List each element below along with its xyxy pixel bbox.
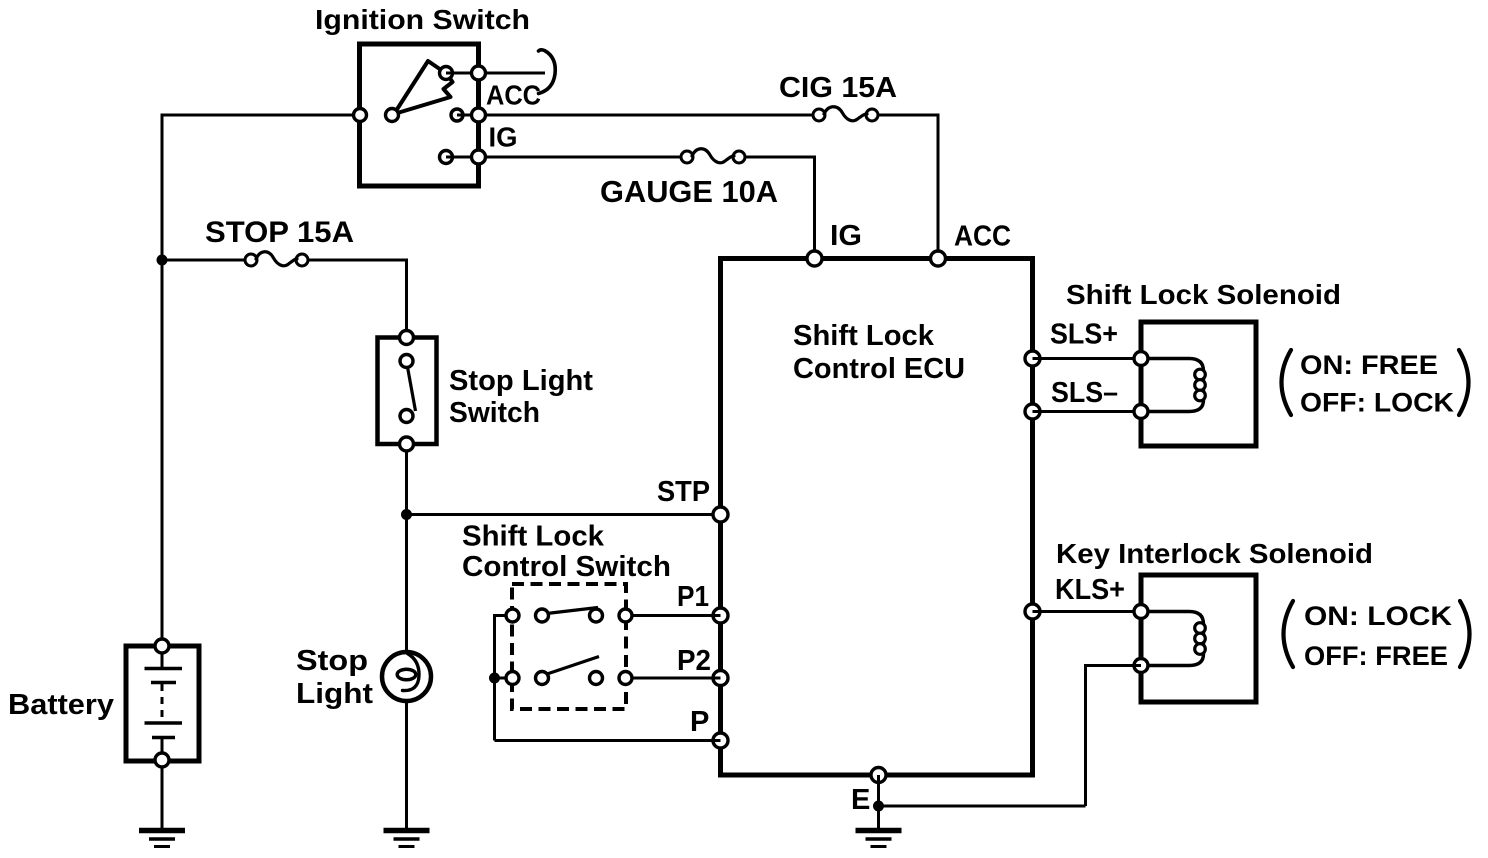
wire STP branch to ECU [407, 513, 721, 516]
fuse GAUGE 10A [681, 151, 693, 163]
stop light switch upper contact [400, 355, 413, 368]
wire solenoid return left [1086, 664, 1142, 667]
stop light switch lower contact [400, 410, 413, 423]
ground battery [139, 828, 185, 834]
key interlock solenoid terminal return [1134, 659, 1148, 673]
battery internal lead bottom [161, 739, 164, 753]
svg-text:ACC: ACC [954, 221, 1011, 253]
wire down to stop light switch [405, 259, 408, 340]
svg-text:P1: P1 [677, 581, 709, 613]
svg-text:Control ECU: Control ECU [793, 353, 965, 385]
note shift lock solenoid right paren [1459, 350, 1469, 415]
ignition switch ACC rotor contact [440, 67, 453, 80]
key interlock solenoid coil [1146, 612, 1204, 666]
battery box [126, 646, 199, 761]
wire stub ACC contact to case [446, 72, 478, 75]
battery plate long bottom [145, 721, 183, 725]
wire stub inner ACC contact [457, 114, 478, 117]
wire STOP fuse branch right segment [302, 259, 407, 262]
terminal P on ECU [713, 733, 728, 748]
svg-text:Light: Light [296, 678, 373, 710]
terminal ACC on ECU [931, 251, 946, 266]
wire IG feed after GAUGE fuse [739, 156, 815, 159]
node junction P2 on common rail [489, 673, 500, 684]
terminal KLS+ on ECU [1025, 604, 1040, 619]
svg-text:E: E [851, 784, 870, 816]
fuse CIG 15A [813, 109, 825, 121]
svg-text:STOP 15A: STOP 15A [205, 216, 354, 249]
node junction STP branch [401, 509, 412, 520]
wire lamp to ground [405, 699, 408, 829]
node E junction [873, 801, 884, 812]
wire P2 row to ECU [625, 677, 721, 680]
P2 switch contact c [590, 672, 603, 685]
battery plate short bottom [152, 736, 175, 740]
svg-text:ON: FREE: ON: FREE [1300, 350, 1438, 380]
ignition switch left terminal [354, 109, 367, 122]
wire E terminal to ground node [877, 775, 880, 829]
svg-text:GAUGE 10A: GAUGE 10A [600, 174, 778, 209]
ignition switch ACC row terminal [472, 108, 486, 122]
P1 switch contact a [506, 609, 519, 622]
wire common rail of control switch [493, 614, 496, 741]
stop light switch bottom terminal [400, 437, 414, 451]
battery positive terminal [155, 639, 169, 653]
ignition switch inner ACC contact [451, 109, 463, 121]
wire KLS+ to solenoid [1033, 610, 1142, 613]
stop light filament arc [403, 654, 420, 691]
svg-text:Control Switch: Control Switch [462, 551, 671, 583]
terminal E on ECU [871, 768, 886, 783]
svg-text:OFF: FREE: OFF: FREE [1304, 641, 1448, 671]
stop light switch top terminal [400, 331, 414, 345]
svg-text:Stop: Stop [296, 645, 368, 677]
wire solenoid return down [1084, 664, 1087, 806]
svg-text:IG: IG [830, 220, 862, 252]
battery dashed center link [161, 684, 164, 722]
wire P1 stub from common rail [495, 614, 513, 617]
wire ACC stub with connector curl [479, 72, 546, 75]
P2 switch contact b [536, 672, 549, 685]
ignition switch box [360, 44, 479, 186]
svg-text:OFF: LOCK: OFF: LOCK [1300, 388, 1455, 418]
P1 switch lever [547, 608, 599, 614]
svg-text:P: P [690, 706, 709, 738]
ignition switch ACC terminal [472, 66, 486, 80]
stop light lamp [382, 652, 431, 701]
svg-text:Switch: Switch [449, 397, 540, 429]
wire ACC feed from ignition switch [479, 114, 820, 117]
key interlock solenoid terminal KLS+ [1134, 605, 1148, 619]
svg-text:Shift Lock: Shift Lock [462, 521, 605, 553]
P1 switch contact d [619, 609, 632, 622]
shift lock solenoid coil [1146, 359, 1204, 412]
wire left column down to battery [161, 114, 164, 649]
wire battery to ground [161, 760, 164, 829]
terminal IG on ECU [807, 251, 822, 266]
wire battery feed from ignition switch left to column [162, 114, 360, 117]
shift lock solenoid terminal SLS- [1134, 405, 1148, 419]
battery plate long top [145, 667, 183, 671]
svg-text:IG: IG [489, 122, 518, 153]
wire stub inner IG contact [446, 156, 478, 159]
node junction stop-fuse branch [157, 255, 168, 266]
wire P1 row to ECU [625, 614, 721, 617]
svg-text:P2: P2 [677, 645, 711, 677]
P1 switch contact b [536, 609, 549, 622]
ignition switch pivot contact [386, 109, 399, 122]
P2 switch lever [547, 657, 599, 675]
ground stop light [384, 828, 430, 834]
battery plate short top [151, 681, 176, 685]
terminal SLS+ on ECU [1025, 351, 1040, 366]
P2 switch contact d [619, 672, 632, 685]
svg-text:SLS–: SLS– [1051, 377, 1118, 409]
key interlock solenoid box [1141, 575, 1256, 702]
wire IG feed from ignition switch [479, 156, 688, 159]
ignition switch IG terminal [472, 150, 486, 164]
terminal SLS- on ECU [1025, 404, 1040, 419]
note key interlock right paren [1460, 601, 1470, 667]
svg-text:Ignition Switch: Ignition Switch [315, 4, 530, 35]
svg-text:KLS+: KLS+ [1055, 574, 1125, 606]
wire stop light switch to lamp [405, 443, 408, 654]
svg-text:ON: LOCK: ON: LOCK [1304, 601, 1453, 631]
terminal P1 on ECU [713, 608, 728, 623]
P2 switch contact a [506, 672, 519, 685]
shift lock control switch dashed box [512, 584, 626, 709]
wire P row to ECU [495, 739, 721, 742]
svg-text:Stop Light: Stop Light [449, 365, 593, 397]
P1 switch contact c [590, 609, 603, 622]
battery internal lead top [161, 652, 164, 667]
wire ACC drop to ECU [937, 114, 940, 261]
shift lock solenoid terminal SLS+ [1134, 352, 1148, 366]
note key interlock left paren [1284, 601, 1294, 667]
stop light switch lever [408, 367, 416, 411]
svg-text:Shift Lock Solenoid: Shift Lock Solenoid [1066, 279, 1341, 310]
terminal STP on ECU [713, 507, 728, 522]
svg-text:ACC: ACC [486, 80, 541, 111]
svg-text:Battery: Battery [8, 689, 114, 721]
svg-text:Key Interlock Solenoid: Key Interlock Solenoid [1056, 538, 1373, 569]
svg-text:STP: STP [657, 476, 710, 508]
svg-text:Shift Lock: Shift Lock [793, 320, 935, 352]
shift lock control ECU box [721, 259, 1033, 776]
wire STOP fuse branch left segment [162, 259, 251, 262]
ignition switch rotor wedge [394, 61, 453, 114]
note shift lock solenoid left paren [1282, 350, 1292, 415]
terminal P2 on ECU [713, 671, 728, 686]
svg-text:SLS+: SLS+ [1050, 319, 1118, 351]
wire ACC feed after CIG fuse [872, 114, 938, 117]
wire P2 stub from common rail [495, 677, 513, 680]
wire IG drop to ECU [813, 156, 816, 261]
stop light filament loop [397, 669, 416, 680]
wire SLS- to solenoid [1033, 410, 1142, 413]
shift lock solenoid box [1141, 322, 1256, 446]
ground E [856, 828, 902, 834]
battery negative terminal [155, 753, 169, 767]
wire solenoid return to E node [879, 805, 1086, 808]
connector curl on ACC stub [539, 50, 556, 94]
fuse STOP 15A [245, 254, 257, 266]
ignition switch inner IG contact [440, 151, 453, 164]
svg-text:CIG 15A: CIG 15A [779, 72, 897, 104]
stop light switch box [378, 338, 437, 445]
wire SLS+ to solenoid [1033, 357, 1142, 360]
